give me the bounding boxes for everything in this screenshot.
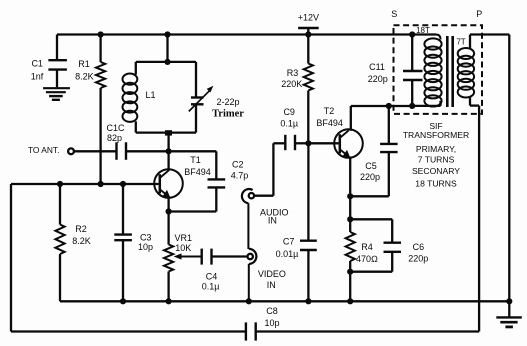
- svg-text:C9: C9: [283, 107, 295, 117]
- capacitor trimmer 2-22p (right side of tank): [189, 62, 244, 133]
- junction bus/R4: [347, 298, 353, 304]
- ground (C1): [43, 88, 70, 100]
- wire primary bottom down: [478, 106, 480, 332]
- jack AUDIO IN (shell): [242, 189, 253, 249]
- wire bottom rail left: [11, 330, 246, 332]
- power +12V terminal: [298, 13, 319, 35]
- wire +12V supply rail (top): [57, 33, 412, 35]
- wire C1C to collector node: [126, 150, 169, 152]
- svg-text:18 TURNS: 18 TURNS: [415, 179, 457, 189]
- transformer dashed box: [394, 25, 483, 114]
- wire T2 base: [308, 142, 338, 144]
- node T1 emitter / C2 / VR1: [166, 208, 172, 214]
- svg-text:BF494: BF494: [316, 118, 343, 128]
- svg-text:0.1µ: 0.1µ: [202, 281, 220, 291]
- winding secondary 18T: [412, 26, 441, 106]
- svg-text:C6: C6: [413, 242, 425, 252]
- svg-text:220p: 220p: [368, 74, 388, 84]
- junction transformer bottom / C11: [409, 103, 415, 109]
- junction tank bottom (square): [165, 130, 172, 135]
- junction bus/C3: [120, 298, 126, 304]
- svg-text:0.1µ: 0.1µ: [280, 118, 298, 128]
- capacitor C4 0.1u: [202, 249, 247, 292]
- svg-text:82p: 82p: [107, 133, 122, 143]
- capacitor C6 220p: [350, 219, 428, 271]
- capacitor C3 10p: [114, 184, 153, 301]
- wire tank stem: [166, 35, 168, 62]
- junction collector/C5: [386, 103, 392, 109]
- svg-text:0.01µ: 0.01µ: [276, 249, 299, 259]
- svg-text:C8: C8: [266, 306, 278, 316]
- wire tank bottom to T1 collector: [167, 133, 169, 171]
- svg-text:R3: R3: [287, 68, 299, 78]
- capacitor C1: [31, 35, 67, 88]
- junction base/R1: [98, 181, 104, 187]
- junction bus/ground: [506, 298, 512, 304]
- resistor R3 220K: [281, 35, 313, 144]
- wire T2 collector: [351, 106, 412, 131]
- node R4/C6 bottom: [347, 269, 353, 275]
- svg-text:10p: 10p: [264, 318, 279, 328]
- junction rail/R1: [98, 31, 104, 37]
- svg-text:C1C: C1C: [106, 123, 125, 133]
- wire tank top side: [136, 61, 196, 63]
- node R4/C6 top: [347, 216, 353, 222]
- svg-text:C11: C11: [369, 62, 385, 72]
- transformer core: [447, 36, 452, 107]
- svg-text:C7: C7: [283, 237, 295, 247]
- wire T1 emitter: [167, 198, 169, 212]
- svg-text:SECONARY: SECONARY: [412, 166, 460, 176]
- svg-text:4.7p: 4.7p: [231, 171, 249, 181]
- junction rail/L1 tank: [164, 31, 170, 37]
- wire ground bus: [60, 300, 509, 302]
- svg-text:T2: T2: [324, 106, 335, 116]
- svg-text:R4: R4: [361, 242, 373, 252]
- svg-text:IN: IN: [268, 216, 277, 226]
- capacitor C5 220p: [350, 106, 397, 196]
- svg-text:IN: IN: [267, 280, 276, 290]
- capacitor C7 0.01u: [276, 143, 317, 301]
- svg-text:470Ω: 470Ω: [356, 254, 378, 264]
- svg-text:BF494: BF494: [184, 167, 211, 177]
- note SIF transformer: [403, 121, 469, 189]
- svg-text:220K: 220K: [281, 79, 302, 89]
- junction bus/VR1: [166, 298, 172, 304]
- label AUDIO IN: [260, 207, 289, 225]
- transistor T1 BF494: [154, 155, 211, 198]
- resistor R2 8.2K: [55, 184, 90, 301]
- junction tank top: [164, 59, 170, 65]
- svg-text:7 TURNS: 7 TURNS: [418, 155, 455, 165]
- svg-text:PRIMARY,: PRIMARY,: [416, 144, 456, 154]
- svg-text:+12V: +12V: [298, 13, 319, 23]
- wire left edge: [10, 184, 12, 332]
- wire audio pin to C9: [254, 143, 273, 195]
- wire right edge (P top to ground): [508, 35, 510, 302]
- svg-text:R1: R1: [78, 59, 90, 69]
- wire primary top to right edge: [470, 33, 509, 35]
- svg-text:220p: 220p: [360, 172, 380, 182]
- inductor L1: [122, 62, 155, 133]
- svg-text:L1: L1: [145, 90, 155, 100]
- wire emitter to R4: [349, 196, 351, 219]
- resistor R1 8.2K: [75, 35, 105, 185]
- capacitor C9 0.1u: [273, 107, 308, 150]
- wire bottom rail right: [256, 330, 479, 332]
- ground (bottom right): [496, 301, 522, 327]
- svg-text:R2: R2: [75, 224, 87, 234]
- svg-text:Trimer: Trimer: [212, 109, 244, 120]
- junction base/C3: [120, 181, 126, 187]
- junction rail/transformer S: [409, 31, 415, 37]
- junction base/R2: [57, 181, 63, 187]
- svg-text:10p: 10p: [138, 242, 153, 252]
- svg-text:C4: C4: [206, 272, 218, 282]
- label P (primary): [476, 9, 482, 19]
- label VIDEO IN: [258, 269, 286, 290]
- capacitor C11 220p: [368, 35, 423, 106]
- node collector T1 / C1C / C2: [166, 148, 172, 154]
- svg-text:1nf: 1nf: [31, 72, 44, 82]
- svg-text:VR1: VR1: [174, 233, 192, 243]
- capacitor C2 4.7p: [169, 151, 249, 211]
- junction rail/R3: [305, 31, 311, 37]
- svg-text:10K: 10K: [175, 243, 191, 253]
- capacitor C8 10p: [246, 306, 280, 341]
- transistor T2 BF494: [316, 106, 362, 158]
- winding primary 7T: [456, 35, 479, 106]
- svg-text:8.2K: 8.2K: [72, 236, 91, 246]
- wire tank bottom side: [136, 131, 196, 133]
- node T2 emitter / C5: [347, 193, 353, 199]
- wire base line: [11, 183, 159, 185]
- svg-text:TO ANT.: TO ANT.: [28, 145, 60, 155]
- junction bus/C7: [305, 298, 311, 304]
- svg-text:S: S: [391, 9, 397, 19]
- resistor R4 470ohm: [346, 219, 378, 271]
- jack AUDIO IN (pin): [249, 193, 254, 198]
- svg-text:2-22p: 2-22p: [216, 97, 239, 107]
- jack VIDEO IN (shell): [249, 249, 257, 301]
- terminal TO ANT.: [28, 145, 74, 155]
- junction bus/video shell: [246, 298, 252, 304]
- svg-text:220p: 220p: [408, 254, 428, 264]
- svg-text:C1: C1: [31, 58, 43, 68]
- capacitor C1C 82p: [106, 123, 126, 160]
- wire antenna to C1C: [74, 150, 116, 152]
- node R3 / C9 / T2 base / C7: [305, 140, 311, 146]
- wire R4 to ground bus: [349, 272, 351, 302]
- svg-text:TRANSFORMER: TRANSFORMER: [403, 130, 469, 140]
- label S (secondary): [391, 9, 397, 19]
- svg-text:8.2K: 8.2K: [75, 72, 94, 82]
- potentiometer VR1 10K: [164, 212, 202, 302]
- svg-text:P: P: [476, 9, 482, 19]
- svg-text:T1: T1: [190, 155, 201, 165]
- svg-text:7T: 7T: [456, 37, 465, 46]
- svg-text:C2: C2: [232, 160, 244, 170]
- jack VIDEO IN (pin): [248, 254, 253, 259]
- wire T2 emitter: [349, 157, 351, 197]
- svg-text:VIDEO: VIDEO: [258, 269, 286, 279]
- svg-text:C5: C5: [365, 161, 377, 171]
- svg-text:18T: 18T: [416, 26, 430, 35]
